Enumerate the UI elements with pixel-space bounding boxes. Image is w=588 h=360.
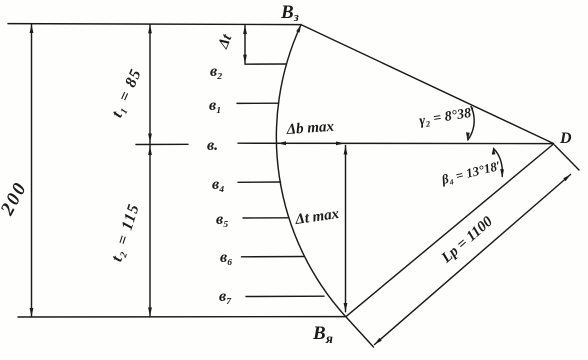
arrowhead t2 bottom [148, 307, 152, 316]
ordinate line B2 [245, 63, 286, 65]
svg-text:в₂: в₂ [210, 63, 223, 80]
extension line at B8 [347, 318, 374, 348]
extension line at D [555, 145, 580, 170]
arrowhead t2 top [148, 146, 152, 155]
arrowhead delta-b-max right [336, 142, 345, 146]
wire bottom edge line [18, 316, 346, 318]
arrowhead beta4 arc bottom [500, 169, 504, 178]
arrowhead beta4 arc top [492, 147, 496, 155]
wire center tick at t boundary [136, 143, 188, 145]
arrowhead delta-t-max bottom [344, 303, 348, 312]
arrowhead Lp top-right [563, 175, 570, 182]
arrowhead gamma2 arc [466, 132, 470, 141]
svg-text:в₅: в₅ [216, 211, 229, 228]
angle arc beta4 [494, 149, 503, 177]
wire line B3 to D [301, 25, 554, 144]
dimension line Lp [375, 175, 571, 345]
arrowhead t1 top [148, 24, 152, 33]
dimension line delta-t [244, 26, 246, 64]
arrowhead 200 top [30, 24, 34, 33]
svg-text:в₁: в₁ [209, 97, 222, 114]
svg-text:в.: в. [207, 137, 218, 154]
arrowhead Lp bottom-left [375, 338, 382, 345]
ordinate line B1 [237, 102, 279, 104]
arrowhead delta-t-max top [344, 146, 348, 155]
ordinate line B5 [243, 217, 289, 219]
wire center line B0 to D [238, 142, 553, 144]
dimension line delta-t-max [345, 146, 347, 312]
dimension line t1 t2 [149, 25, 151, 317]
arrowhead t1 bottom [148, 134, 152, 143]
arrowhead delta-b-max left [277, 141, 286, 145]
arrowhead at apex B3 [296, 25, 301, 33]
svg-text:в₆: в₆ [220, 249, 233, 266]
ordinate line B4 [238, 181, 281, 183]
profile arc B3-B8 [276, 25, 345, 316]
dimension line 200 [31, 25, 33, 317]
arrowhead delta-t bottom [243, 55, 247, 64]
ordinate line B6 [242, 256, 305, 258]
svg-text:в₇: в₇ [219, 288, 232, 305]
svg-text:D: D [559, 130, 572, 147]
wire top edge line [8, 24, 301, 25]
svg-text:Δb max: Δb max [285, 119, 335, 138]
ordinate line B7 [246, 295, 324, 297]
arrowhead 200 bottom [30, 308, 34, 317]
wire line B8 to D [346, 144, 554, 317]
svg-text:в₄: в₄ [212, 176, 225, 193]
angle arc gamma2 [468, 107, 474, 141]
arrowhead delta-t top [243, 25, 247, 34]
